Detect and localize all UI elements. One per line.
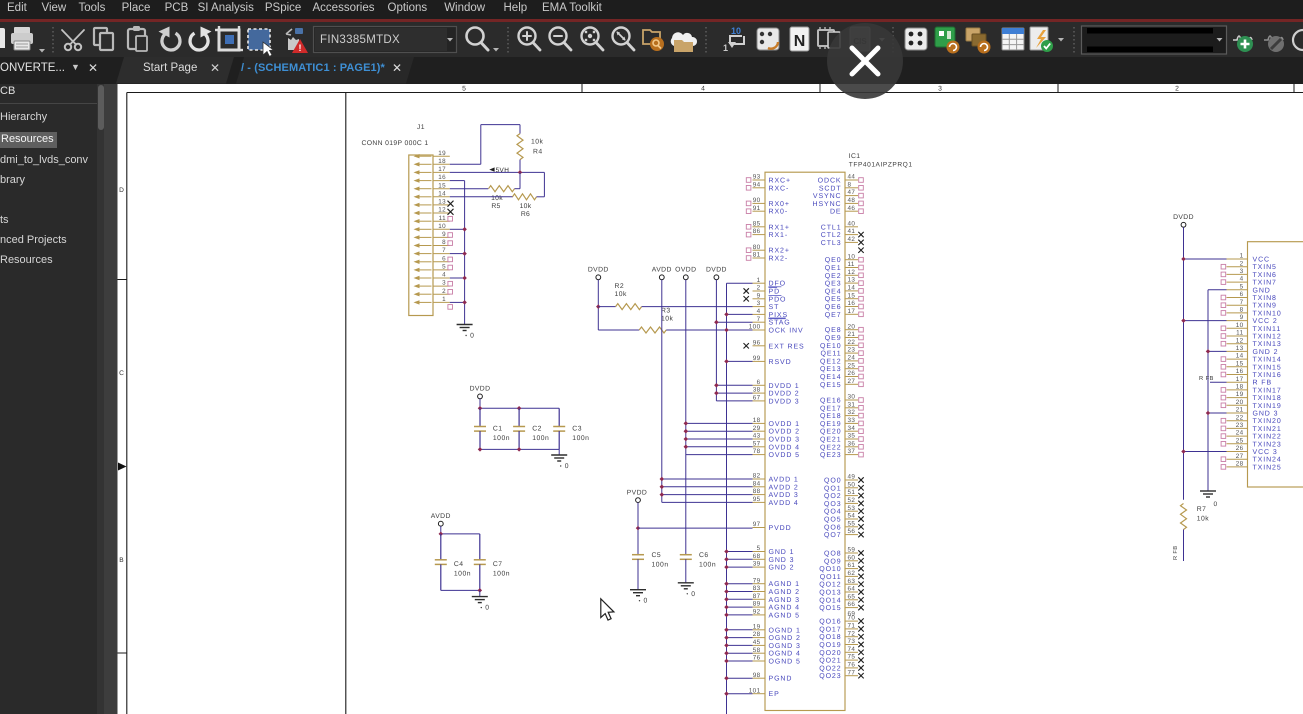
- svg-text:13: 13: [438, 199, 446, 206]
- svg-text:0: 0: [1214, 501, 1218, 508]
- svg-text:7: 7: [1240, 299, 1244, 306]
- svg-text:94: 94: [753, 181, 761, 188]
- svg-text:14: 14: [1236, 353, 1244, 360]
- svg-text:QO23: QO23: [819, 673, 841, 680]
- svg-text:QO13: QO13: [819, 590, 841, 597]
- svg-text:100n: 100n: [493, 571, 510, 578]
- svg-text:R FB: R FB: [1199, 376, 1214, 382]
- svg-text:QE4: QE4: [825, 288, 842, 295]
- svg-text:AVDD 1: AVDD 1: [769, 477, 799, 484]
- svg-text:DVDD: DVDD: [1173, 214, 1194, 221]
- svg-text:QO5: QO5: [824, 517, 841, 524]
- svg-text:63: 63: [848, 578, 856, 585]
- svg-text:RXC+: RXC+: [769, 178, 791, 185]
- svg-text:14: 14: [438, 190, 446, 197]
- svg-text:R2: R2: [615, 283, 625, 290]
- svg-text:AGND 1: AGND 1: [769, 581, 800, 588]
- svg-text:49: 49: [848, 474, 856, 481]
- svg-text:23: 23: [1236, 422, 1244, 429]
- svg-text:39: 39: [753, 561, 761, 568]
- svg-text:QO10: QO10: [819, 566, 841, 573]
- svg-text:R5: R5: [491, 203, 500, 210]
- svg-text:10: 10: [1236, 322, 1244, 329]
- svg-text:3: 3: [938, 86, 942, 93]
- svg-text:69: 69: [848, 610, 856, 617]
- svg-text:10k: 10k: [1197, 516, 1210, 523]
- svg-text:1: 1: [757, 277, 761, 284]
- svg-text:QE12: QE12: [820, 358, 842, 365]
- svg-text:QO0: QO0: [824, 478, 841, 485]
- svg-text:QO17: QO17: [819, 626, 841, 633]
- svg-text:35: 35: [848, 433, 856, 440]
- svg-text:OCK INV: OCK INV: [769, 328, 804, 335]
- svg-text:77: 77: [848, 669, 856, 676]
- svg-text:TXIN10: TXIN10: [1253, 310, 1282, 317]
- svg-text:VCC 2: VCC 2: [1253, 318, 1278, 325]
- svg-text:80: 80: [753, 244, 761, 251]
- svg-text:89: 89: [753, 601, 761, 608]
- svg-text:QO22: QO22: [819, 665, 841, 672]
- svg-text:TFP401AIPZPRQ1: TFP401AIPZPRQ1: [849, 162, 913, 169]
- svg-text:0: 0: [485, 605, 489, 612]
- svg-text:96: 96: [753, 339, 761, 346]
- svg-text:67: 67: [753, 395, 761, 402]
- svg-text:76: 76: [753, 655, 761, 662]
- svg-text:15: 15: [438, 182, 446, 189]
- svg-text:OGND 4: OGND 4: [769, 651, 801, 658]
- svg-text:21: 21: [1236, 407, 1244, 414]
- svg-text:DVDD 1: DVDD 1: [769, 383, 800, 390]
- svg-text:C5: C5: [652, 552, 662, 559]
- svg-text:61: 61: [848, 562, 856, 569]
- svg-text:12: 12: [1236, 337, 1244, 344]
- svg-text:TXIN6: TXIN6: [1253, 272, 1277, 279]
- svg-text:51: 51: [848, 489, 856, 496]
- svg-text:RX1-: RX1-: [769, 232, 789, 239]
- svg-text:QE15: QE15: [820, 382, 842, 389]
- svg-text:QO21: QO21: [819, 658, 841, 665]
- svg-text:58: 58: [753, 647, 761, 654]
- svg-text:6: 6: [1240, 291, 1244, 298]
- svg-text:J1: J1: [417, 124, 425, 131]
- svg-text:0: 0: [644, 598, 648, 605]
- svg-text:19: 19: [753, 623, 761, 630]
- svg-text:15: 15: [848, 292, 856, 299]
- svg-text:11: 11: [1236, 330, 1243, 337]
- svg-text:TXIN9: TXIN9: [1253, 303, 1277, 310]
- svg-text:PD: PD: [769, 289, 781, 296]
- svg-text:5: 5: [1240, 283, 1244, 290]
- svg-text:OGND 1: OGND 1: [769, 627, 801, 634]
- svg-text:OVDD 1: OVDD 1: [769, 421, 800, 428]
- svg-text:26: 26: [1236, 445, 1244, 452]
- svg-text:STAG: STAG: [769, 320, 791, 327]
- svg-text:44: 44: [848, 174, 856, 181]
- svg-text:D: D: [119, 187, 124, 194]
- svg-text:VCC: VCC: [1253, 257, 1270, 264]
- svg-text:QE7: QE7: [825, 312, 842, 319]
- svg-text:QO15: QO15: [819, 605, 841, 612]
- svg-text:46: 46: [848, 205, 856, 212]
- svg-text:8: 8: [848, 181, 852, 188]
- svg-text:3: 3: [1240, 268, 1244, 275]
- svg-text:17: 17: [438, 166, 446, 173]
- svg-text:100n: 100n: [699, 562, 716, 569]
- svg-text:EXT RES: EXT RES: [769, 343, 805, 350]
- svg-text:C2: C2: [532, 426, 542, 433]
- svg-text:56: 56: [848, 528, 856, 535]
- svg-text:88: 88: [753, 488, 761, 495]
- svg-text:4: 4: [701, 86, 705, 93]
- svg-text:32: 32: [848, 409, 856, 416]
- svg-text:1: 1: [1240, 253, 1244, 260]
- svg-text:100n: 100n: [572, 435, 589, 442]
- svg-text:QE2: QE2: [825, 273, 842, 280]
- svg-text:41: 41: [848, 228, 856, 235]
- svg-text:RX0-: RX0-: [769, 209, 789, 216]
- svg-text:AGND 2: AGND 2: [769, 589, 800, 596]
- svg-text:QE1: QE1: [825, 265, 842, 272]
- svg-text:97: 97: [753, 521, 761, 528]
- svg-text:QE23: QE23: [820, 452, 842, 459]
- svg-text:VCC 3: VCC 3: [1253, 449, 1278, 456]
- svg-text:HSYNC: HSYNC: [812, 201, 841, 208]
- svg-text:2: 2: [1175, 86, 1179, 93]
- svg-text:23: 23: [848, 347, 856, 354]
- svg-text:2: 2: [442, 288, 446, 295]
- svg-text:TXIN19: TXIN19: [1253, 403, 1282, 410]
- svg-text:OVDD 5: OVDD 5: [769, 452, 800, 459]
- svg-text:GND 2: GND 2: [769, 565, 795, 572]
- svg-text:GND 1: GND 1: [769, 549, 795, 556]
- svg-text:9: 9: [757, 292, 761, 299]
- svg-text:26: 26: [848, 370, 856, 377]
- svg-text:QE5: QE5: [825, 296, 842, 303]
- svg-text:DVDD 2: DVDD 2: [769, 391, 800, 398]
- svg-text:QO9: QO9: [824, 558, 841, 565]
- svg-text:43: 43: [753, 433, 761, 440]
- svg-text:0: 0: [565, 463, 569, 470]
- svg-text:!: !: [299, 43, 302, 53]
- svg-text:TXIN5: TXIN5: [1253, 264, 1277, 271]
- svg-text:16: 16: [1236, 368, 1244, 375]
- svg-text:37: 37: [848, 448, 856, 455]
- svg-text:QO8: QO8: [824, 551, 841, 558]
- svg-text:DE: DE: [830, 209, 842, 216]
- svg-text:QO20: QO20: [819, 650, 841, 657]
- svg-text:18: 18: [1236, 384, 1244, 391]
- svg-text:C1: C1: [493, 426, 503, 433]
- svg-text:AVDD 3: AVDD 3: [769, 492, 799, 499]
- svg-text:0: 0: [470, 333, 474, 340]
- svg-text:78: 78: [753, 448, 761, 455]
- svg-text:IC1: IC1: [849, 153, 860, 160]
- svg-text:22: 22: [848, 339, 856, 346]
- svg-text:14: 14: [848, 285, 856, 292]
- svg-text:QE11: QE11: [821, 351, 842, 358]
- svg-text:100n: 100n: [652, 562, 669, 569]
- svg-text:5: 5: [757, 545, 761, 552]
- svg-text:6: 6: [442, 255, 446, 262]
- svg-text:10: 10: [438, 223, 446, 230]
- svg-text:27: 27: [848, 378, 856, 385]
- svg-text:55: 55: [848, 520, 856, 527]
- svg-text:13: 13: [848, 277, 856, 284]
- svg-text:DVDD: DVDD: [588, 267, 609, 274]
- svg-text:8: 8: [1240, 307, 1244, 314]
- svg-text:25: 25: [848, 362, 856, 369]
- svg-text:QO6: QO6: [824, 524, 841, 531]
- svg-text:100n: 100n: [532, 435, 549, 442]
- svg-text:71: 71: [848, 623, 856, 630]
- svg-text:83: 83: [753, 585, 761, 592]
- svg-text:QO4: QO4: [824, 509, 841, 516]
- svg-text:CTL2: CTL2: [821, 232, 842, 239]
- svg-text:54: 54: [848, 513, 856, 520]
- svg-text:CTL1: CTL1: [821, 224, 842, 231]
- svg-text:AVDD: AVDD: [431, 513, 451, 520]
- svg-text:93: 93: [753, 174, 761, 181]
- svg-text:13: 13: [1236, 345, 1244, 352]
- svg-text:OVDD 3: OVDD 3: [769, 437, 800, 444]
- svg-text:10: 10: [731, 26, 741, 36]
- svg-text:7: 7: [442, 247, 446, 254]
- svg-text:TXIN18: TXIN18: [1253, 395, 1282, 402]
- svg-text:DVDD 3: DVDD 3: [769, 398, 800, 405]
- svg-text:91: 91: [753, 205, 761, 212]
- svg-text:QE6: QE6: [825, 304, 842, 311]
- svg-text:19: 19: [438, 150, 446, 157]
- svg-text:59: 59: [848, 547, 856, 554]
- svg-text:50: 50: [848, 481, 856, 488]
- svg-text:3: 3: [442, 280, 446, 287]
- svg-text:TXIN8: TXIN8: [1253, 295, 1277, 302]
- svg-text:99: 99: [753, 355, 761, 362]
- svg-text:R FB: R FB: [1253, 380, 1273, 387]
- svg-text:100n: 100n: [493, 435, 510, 442]
- svg-text:2: 2: [757, 285, 761, 292]
- svg-text:74: 74: [848, 646, 856, 653]
- svg-text:AGND 5: AGND 5: [769, 612, 800, 619]
- svg-text:10k: 10k: [520, 203, 532, 210]
- svg-text:QO12: QO12: [819, 582, 841, 589]
- svg-text:R FB: R FB: [1173, 546, 1179, 560]
- svg-text:9: 9: [442, 231, 446, 238]
- svg-text:R4: R4: [533, 149, 543, 156]
- svg-text:AGND 3: AGND 3: [769, 597, 800, 604]
- svg-text:28: 28: [753, 631, 761, 638]
- svg-text:17: 17: [848, 308, 856, 315]
- svg-text:82: 82: [753, 473, 761, 480]
- svg-text:RXC-: RXC-: [769, 185, 790, 192]
- svg-text:QO2: QO2: [824, 493, 841, 500]
- svg-text:CTL3: CTL3: [821, 240, 842, 247]
- svg-text:RX1+: RX1+: [769, 224, 790, 231]
- svg-text:81: 81: [753, 252, 761, 259]
- svg-text:TXIN12: TXIN12: [1253, 334, 1282, 341]
- svg-text:QE3: QE3: [825, 281, 842, 288]
- svg-text:47: 47: [848, 189, 856, 196]
- svg-text:PVDD: PVDD: [769, 525, 792, 532]
- svg-text:RX2+: RX2+: [769, 248, 790, 255]
- svg-text:5VH: 5VH: [496, 167, 510, 174]
- svg-text:31: 31: [848, 401, 856, 408]
- svg-text:66: 66: [848, 601, 856, 608]
- svg-text:64: 64: [848, 586, 856, 593]
- svg-text:ODCK: ODCK: [818, 178, 842, 185]
- svg-text:16: 16: [848, 300, 856, 307]
- svg-text:TXIN7: TXIN7: [1253, 280, 1277, 287]
- svg-text:OVDD 4: OVDD 4: [769, 444, 800, 451]
- svg-text:DVDD: DVDD: [706, 267, 727, 274]
- svg-text:QO7: QO7: [824, 532, 841, 539]
- svg-text:6: 6: [757, 379, 761, 386]
- svg-text:EP: EP: [769, 691, 780, 698]
- svg-text:10k: 10k: [531, 139, 544, 146]
- svg-text:PVDD: PVDD: [627, 489, 647, 496]
- svg-text:65: 65: [848, 593, 856, 600]
- svg-text:GND 3: GND 3: [769, 557, 795, 564]
- svg-text:24: 24: [1236, 430, 1244, 437]
- svg-text:ST: ST: [769, 304, 780, 311]
- svg-text:24: 24: [848, 355, 856, 362]
- svg-text:TXIN21: TXIN21: [1253, 426, 1282, 433]
- svg-text:OGND 5: OGND 5: [769, 659, 801, 666]
- svg-text:AGND 4: AGND 4: [769, 605, 800, 612]
- svg-text:TXIN20: TXIN20: [1253, 418, 1282, 425]
- svg-text:QE14: QE14: [820, 374, 842, 381]
- svg-text:4: 4: [757, 308, 761, 315]
- svg-text:TXIN22: TXIN22: [1253, 434, 1282, 441]
- svg-text:TXIN17: TXIN17: [1253, 387, 1282, 394]
- svg-text:40: 40: [848, 220, 856, 227]
- svg-text:SCDT: SCDT: [819, 185, 842, 192]
- svg-text:84: 84: [753, 480, 761, 487]
- svg-text:CONN 019P 000C 1: CONN 019P 000C 1: [362, 140, 429, 147]
- svg-text:11: 11: [848, 261, 855, 268]
- svg-text:QO18: QO18: [819, 634, 841, 641]
- svg-text:28: 28: [1236, 461, 1244, 468]
- svg-text:QE9: QE9: [825, 335, 842, 342]
- svg-text:12: 12: [438, 207, 446, 214]
- svg-text:QO19: QO19: [819, 642, 841, 649]
- svg-text:76: 76: [848, 662, 856, 669]
- svg-text:3: 3: [757, 300, 761, 307]
- svg-text:TXIN23: TXIN23: [1253, 441, 1282, 448]
- svg-text:OVDD: OVDD: [675, 267, 696, 274]
- svg-text:RX2-: RX2-: [769, 256, 789, 263]
- svg-text:68: 68: [753, 553, 761, 560]
- svg-text:QO11: QO11: [820, 574, 842, 581]
- svg-text:79: 79: [753, 577, 761, 584]
- svg-text:QE16: QE16: [820, 398, 842, 405]
- svg-text:21: 21: [848, 331, 856, 338]
- svg-text:18: 18: [438, 158, 446, 165]
- svg-text:92: 92: [753, 609, 761, 616]
- svg-text:62: 62: [848, 570, 856, 577]
- svg-text:TXIN15: TXIN15: [1253, 364, 1282, 371]
- svg-text:87: 87: [753, 593, 761, 600]
- svg-text:RX0+: RX0+: [769, 201, 790, 208]
- svg-text:25: 25: [1236, 437, 1244, 444]
- svg-text:QE19: QE19: [820, 421, 842, 428]
- svg-text:9: 9: [1240, 314, 1244, 321]
- svg-text:85: 85: [753, 220, 761, 227]
- svg-text:AVDD 2: AVDD 2: [769, 484, 799, 491]
- svg-text:R3: R3: [661, 308, 671, 315]
- svg-text:QE13: QE13: [820, 366, 842, 373]
- svg-text:QE21: QE21: [820, 437, 842, 444]
- svg-text:QE18: QE18: [820, 413, 842, 420]
- svg-text:C7: C7: [493, 561, 503, 568]
- svg-text:TXIN11: TXIN11: [1253, 326, 1282, 333]
- svg-text:AVDD 4: AVDD 4: [769, 500, 799, 507]
- svg-text:10k: 10k: [491, 195, 503, 202]
- svg-text:QO1: QO1: [824, 485, 841, 492]
- svg-text:18: 18: [753, 417, 761, 424]
- svg-text:33: 33: [848, 417, 856, 424]
- svg-text:10: 10: [848, 253, 856, 260]
- svg-text:5: 5: [442, 264, 446, 271]
- svg-text:TXIN25: TXIN25: [1253, 464, 1282, 471]
- svg-text:1: 1: [723, 43, 728, 53]
- svg-text:10k: 10k: [615, 291, 628, 298]
- svg-text:GND: GND: [1253, 287, 1271, 294]
- svg-text:AVDD: AVDD: [652, 267, 672, 274]
- svg-text:C6: C6: [699, 552, 709, 559]
- svg-text:75: 75: [848, 654, 856, 661]
- svg-text:GND 3: GND 3: [1253, 411, 1279, 418]
- svg-text:OGND 2: OGND 2: [769, 635, 801, 642]
- svg-text:53: 53: [848, 505, 856, 512]
- svg-text:QO3: QO3: [824, 501, 841, 508]
- svg-text:PGND: PGND: [769, 676, 793, 683]
- svg-text:GND 2: GND 2: [1253, 349, 1279, 356]
- svg-text:QO14: QO14: [819, 597, 841, 604]
- svg-text:R7: R7: [1197, 506, 1207, 513]
- svg-text:5: 5: [462, 86, 466, 93]
- svg-text:C: C: [119, 370, 124, 377]
- svg-text:27: 27: [1236, 453, 1244, 460]
- svg-text:52: 52: [848, 497, 856, 504]
- svg-text:4: 4: [1240, 276, 1244, 283]
- svg-text:TXIN13: TXIN13: [1253, 341, 1282, 348]
- svg-text:12: 12: [848, 269, 856, 276]
- svg-text:11: 11: [439, 215, 446, 222]
- svg-text:QE22: QE22: [820, 444, 842, 451]
- svg-text:DVDD: DVDD: [470, 386, 491, 393]
- svg-text:36: 36: [848, 440, 856, 447]
- svg-text:45: 45: [753, 639, 761, 646]
- svg-text:16: 16: [438, 174, 446, 181]
- svg-text:42: 42: [848, 236, 856, 243]
- svg-text:QE10: QE10: [820, 343, 842, 350]
- svg-text:20: 20: [1236, 399, 1244, 406]
- svg-text:QE0: QE0: [825, 257, 842, 264]
- svg-text:TXIN16: TXIN16: [1253, 372, 1282, 379]
- svg-text:95: 95: [753, 496, 761, 503]
- svg-text:17: 17: [1236, 376, 1244, 383]
- svg-text:2: 2: [1240, 260, 1244, 267]
- svg-text:7: 7: [757, 316, 761, 323]
- svg-text:0: 0: [691, 591, 695, 598]
- svg-text:QE17: QE17: [820, 405, 842, 412]
- svg-text:30: 30: [848, 394, 856, 401]
- svg-text:100n: 100n: [454, 571, 471, 578]
- svg-text:8: 8: [442, 239, 446, 246]
- svg-text:C4: C4: [454, 561, 464, 568]
- svg-text:34: 34: [848, 425, 856, 432]
